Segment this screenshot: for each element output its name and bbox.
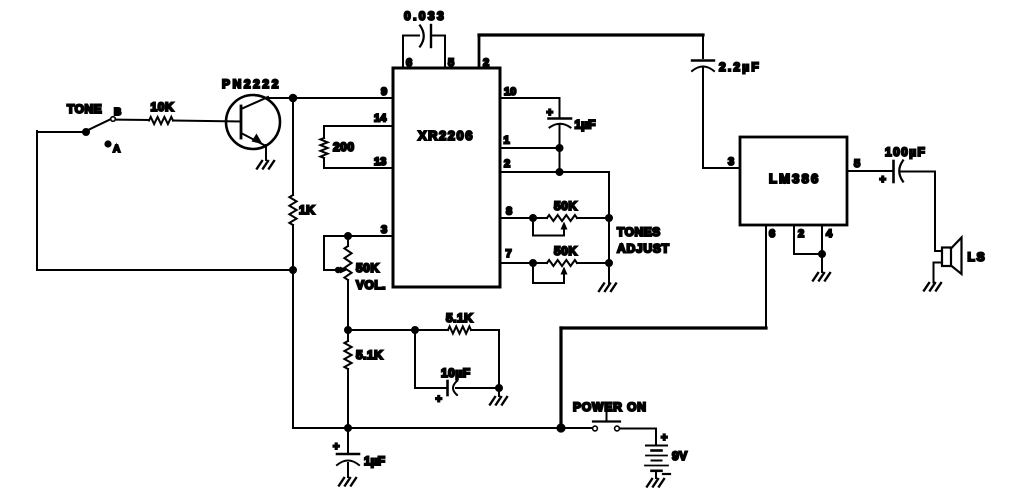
svg-text:4: 4 (826, 228, 833, 240)
wire bottom rail (293, 427, 592, 429)
svg-text:2: 2 (483, 57, 489, 69)
svg-text:6: 6 (769, 228, 775, 240)
svg-text:PN2222: PN2222 (222, 77, 281, 91)
wire RC right down (498, 330, 500, 388)
pin 7 (500, 262, 533, 264)
capacitor 10uF (446, 381, 449, 395)
potentiometer 50K tones (pin 8) (533, 217, 547, 219)
node pot bottom (345, 327, 351, 333)
svg-text:1: 1 (504, 135, 510, 147)
resistor 5.1K horizontal (448, 326, 471, 333)
wire pin2 to C 2.2uF (thick) (479, 33, 703, 36)
svg-text:10µF: 10µF (441, 366, 471, 380)
svg-text:XR2206: XR2206 (418, 128, 474, 143)
ground battery (647, 479, 652, 487)
svg-text:100µF: 100µF (885, 145, 926, 159)
wire switch B to R 10K (116, 119, 150, 121)
node RC right (496, 385, 502, 391)
svg-text:TONE: TONE (67, 102, 102, 116)
svg-text:2.2µF: 2.2µF (719, 60, 761, 74)
svg-text:A: A (113, 144, 120, 155)
pin 6 (765, 225, 767, 328)
resistor 10K (149, 117, 173, 124)
svg-text:5.1K: 5.1K (446, 311, 473, 325)
potentiometer 50K VOL (345, 233, 351, 239)
svg-text:+: + (436, 394, 442, 406)
pin 2 bottom (793, 225, 795, 254)
svg-text:POWER ON: POWER ON (573, 400, 647, 414)
wire C to LM386 pin 3 (703, 167, 740, 169)
ground LM386 pins 2 4 (813, 273, 818, 281)
svg-text:TONES: TONES (617, 225, 661, 239)
ground C6 (339, 478, 344, 486)
ground 10uF (498, 388, 500, 396)
op-amp U2 LM386 (740, 137, 847, 225)
capacitor C6 1uF bottom (347, 428, 349, 452)
capacitor 0.033 (403, 35, 419, 37)
capacitor 100uF (892, 161, 895, 182)
battery 9V (646, 445, 667, 447)
svg-text:5: 5 (854, 158, 860, 170)
wire pin6 to rail (thick) (561, 326, 766, 329)
svg-text:0.033: 0.033 (404, 9, 446, 23)
pin 10 (500, 97, 560, 99)
svg-text:5: 5 (448, 57, 454, 69)
svg-text:50K: 50K (356, 261, 380, 275)
wire node to parallel RC (348, 329, 448, 331)
svg-text:13: 13 (374, 156, 386, 168)
svg-text:200: 200 (333, 140, 355, 154)
resistor 5.1K vertical (347, 330, 349, 341)
pin 13 (324, 167, 393, 169)
node RC left (412, 327, 418, 333)
svg-text:ADJUST: ADJUST (617, 242, 670, 256)
node rail R5.1K (345, 425, 351, 431)
pin 8 (500, 217, 533, 219)
svg-text:50K: 50K (554, 199, 578, 213)
pin 3 (324, 235, 393, 237)
op IC U1 XR2206 (393, 68, 500, 287)
svg-text:1µF: 1µF (364, 454, 385, 468)
capacitor 2.2uF (702, 35, 704, 58)
svg-text:+: + (661, 432, 667, 444)
wire pot to node (347, 280, 349, 330)
node collector junction (290, 95, 297, 102)
wire R 10K to Q1 base (173, 121, 241, 122)
svg-text:6: 6 (406, 57, 412, 69)
transistor Q1 PN2222 (226, 95, 280, 149)
svg-text:5.1K: 5.1K (356, 348, 383, 362)
svg-text:10: 10 (504, 86, 516, 98)
wire switch to battery (620, 428, 657, 430)
svg-text:+: + (333, 441, 339, 453)
svg-text:+: + (547, 107, 553, 119)
pin 5 (847, 170, 892, 172)
svg-text:14: 14 (374, 113, 387, 125)
resistor 1K (289, 195, 296, 225)
svg-text:2: 2 (504, 158, 510, 170)
wire tones bus (608, 172, 610, 283)
svg-text:9V: 9V (672, 449, 688, 463)
ground speaker (924, 283, 929, 291)
switch S1 TONE select (37, 131, 82, 133)
capacitor C2 1uF (559, 98, 561, 117)
pin 2 stub top (478, 35, 481, 68)
svg-text:3: 3 (381, 224, 387, 236)
svg-text:7: 7 (506, 248, 512, 260)
wire R 1K to node (292, 225, 294, 270)
wire Q1 emitter to ground (265, 145, 267, 160)
resistor 200 (323, 126, 325, 138)
svg-text:LM386: LM386 (769, 171, 820, 186)
svg-text:B: B (114, 107, 121, 118)
svg-text:9: 9 (381, 86, 387, 98)
svg-text:3: 3 (728, 156, 734, 168)
svg-text:1µF: 1µF (575, 118, 596, 132)
svg-text:+: + (880, 174, 886, 186)
contact A (105, 141, 110, 146)
svg-text:2: 2 (798, 228, 804, 240)
pin 2 right (500, 171, 609, 173)
svg-text:1K: 1K (299, 203, 315, 217)
svg-text:10K: 10K (151, 100, 175, 114)
wire to speaker (934, 172, 936, 252)
wire RC left down (414, 330, 416, 388)
pin 14 (324, 125, 393, 127)
potentiometer 50K tones (pin 7) (533, 262, 547, 264)
svg-text:8: 8 (506, 206, 512, 218)
wire left bus vertical (36, 131, 38, 270)
pin 1 (500, 147, 560, 149)
wire Q1 collector to XR2206 pin 9 (266, 97, 393, 99)
ground Q1 emitter (257, 161, 262, 169)
wire left bus horizontal (37, 269, 293, 271)
wire node down to R 1K (292, 98, 294, 195)
pin 4 (821, 225, 823, 272)
svg-text:LS: LS (968, 250, 987, 264)
node left bus junction (290, 267, 296, 273)
node rail LM386 supply (557, 424, 564, 431)
pin 6 stub (402, 36, 404, 68)
wire node to bottom rail (292, 270, 294, 428)
ground tones adjust (599, 284, 604, 292)
pin 5 stub (444, 36, 446, 68)
svg-text:VOL.: VOL. (356, 278, 386, 292)
svg-text:50K: 50K (554, 244, 578, 258)
speaker LS (942, 248, 951, 267)
